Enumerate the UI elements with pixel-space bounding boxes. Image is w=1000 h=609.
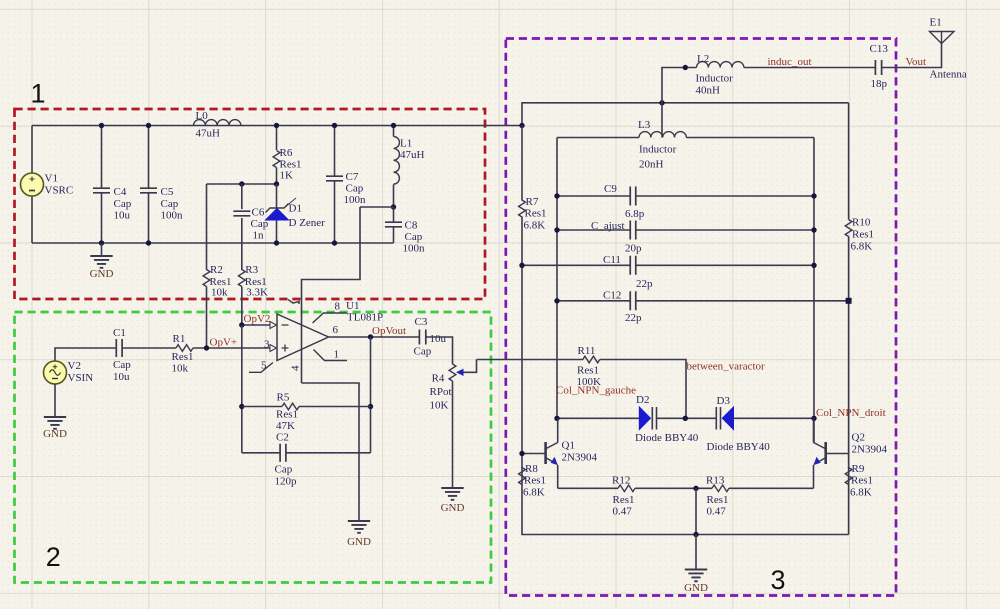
svg-text:R8: R8 (525, 463, 538, 475)
op-amp U1 pin 5 stub (249, 363, 273, 373)
junction R6 top (274, 123, 279, 128)
antenna E1 (930, 32, 955, 44)
junction R5 left (239, 404, 244, 409)
svg-text:R3: R3 (245, 264, 258, 276)
svg-text:2N3904: 2N3904 (562, 452, 598, 464)
svg-text:1n: 1n (253, 230, 265, 242)
junction C7 top (332, 123, 337, 128)
svg-text:R12: R12 (612, 475, 630, 487)
junction L2 left (683, 65, 688, 70)
capacitor C9 6.8p (557, 195, 630, 197)
svg-text:Res1: Res1 (707, 494, 729, 506)
junction C5 top (146, 123, 151, 128)
svg-text:C12: C12 (603, 290, 621, 302)
svg-text:R10: R10 (852, 217, 871, 229)
capacitor C8 (393, 207, 395, 222)
svg-text:Cap: Cap (414, 346, 432, 358)
transistor Q1 2N3904 (544, 442, 547, 464)
svg-text:Res1: Res1 (613, 494, 635, 506)
wire R1 to op-amp pin 3 (193, 347, 270, 349)
svg-text:Cap: Cap (405, 231, 423, 243)
junction between varactors (683, 416, 688, 421)
svg-text:6.8p: 6.8p (625, 208, 645, 220)
ground GND R4 (441, 488, 463, 500)
wire op-amp output to C3 (329, 336, 420, 338)
wire C1 to R1 (123, 347, 177, 349)
wire R4 wiper to R11 (477, 359, 584, 361)
svg-text:L0: L0 (196, 110, 209, 122)
region box 1 (power supply) red dashed border (15, 109, 486, 299)
voltage source V1 VSRC (21, 173, 44, 196)
inductor L1 47uH (393, 126, 395, 137)
resistor R5 47K (242, 406, 282, 408)
svg-text:D Zener: D Zener (289, 217, 326, 229)
op-amp U1 pin 1 stub (314, 350, 348, 361)
resistor R12 0.47 (618, 485, 635, 492)
wire right bus x=848.6 down (848, 103, 850, 220)
ground GND below V2 (54, 384, 56, 417)
inductor L2 40nH (697, 62, 744, 68)
svg-text:4: 4 (290, 365, 302, 371)
wire L2 to C13 (744, 67, 875, 69)
resistor R8 6.8K (519, 468, 526, 485)
svg-text:R9: R9 (852, 463, 865, 475)
wire C3 to R4 (426, 337, 453, 364)
capacitor C11 22p (522, 264, 630, 266)
svg-text:6: 6 (333, 324, 339, 336)
svg-text:18p: 18p (871, 78, 888, 90)
svg-text:C1: C1 (113, 327, 126, 339)
svg-text:0.47: 0.47 (707, 506, 727, 518)
svg-text:GND: GND (684, 582, 708, 594)
svg-text:Cap: Cap (114, 198, 132, 210)
svg-text:6.8K: 6.8K (523, 487, 545, 499)
svg-text:D1: D1 (289, 203, 302, 215)
svg-text:C13: C13 (870, 43, 889, 55)
R4 wiper arrow (461, 360, 477, 373)
capacitor C7 (334, 126, 336, 177)
svg-text:Res1: Res1 (172, 351, 194, 363)
junction node OpV+ (204, 345, 209, 350)
potentiometer R4 RPot 10K (449, 364, 456, 381)
junction C5 bottom (146, 240, 151, 245)
svg-text:Res1: Res1 (276, 409, 298, 421)
svg-text:OpVout: OpVout (372, 325, 406, 337)
svg-text:R2: R2 (210, 264, 223, 276)
svg-text:100n: 100n (161, 210, 184, 222)
svg-text:C2: C2 (276, 432, 289, 444)
svg-text:D2: D2 (636, 394, 649, 406)
svg-text:E1: E1 (930, 17, 942, 29)
svg-text:Col_NPN_droit: Col_NPN_droit (816, 407, 886, 419)
svg-text:C4: C4 (114, 186, 127, 198)
junction varactor row right (811, 416, 816, 421)
capacitor C4 (101, 126, 103, 189)
region box 3 (oscillator) purple dashed border (506, 39, 896, 596)
wire top rail y=125.5 from V1 to section 3 (32, 125, 522, 127)
svg-text:Res1: Res1 (525, 208, 547, 220)
voltage source V2 VSIN (44, 361, 67, 384)
capacitor C2 120p (242, 452, 280, 454)
junction node OpVout (368, 334, 373, 339)
wire OpV2 R3 to op-amp pin 2 (242, 324, 270, 326)
svg-text:8: 8 (335, 301, 341, 313)
svg-text:3: 3 (771, 565, 786, 595)
svg-text:V1: V1 (45, 173, 58, 185)
junction R5 right (368, 404, 373, 409)
svg-text:R4: R4 (432, 373, 445, 385)
wire center tail to ground (695, 488, 697, 534)
junction Q1 base (519, 451, 524, 456)
svg-text:Col_NPN_gauche: Col_NPN_gauche (556, 385, 636, 397)
wire V1 branch x=32 (31, 126, 33, 174)
op-amp U1 pin 8 stub (313, 313, 348, 323)
svg-text:100n: 100n (344, 194, 367, 206)
svg-text:Inductor: Inductor (639, 144, 677, 156)
wire left tank bus x=557 (556, 138, 558, 419)
svg-text:1: 1 (334, 349, 340, 361)
wire feedback left branch x=241.8 (241, 325, 243, 453)
svg-text:L3: L3 (638, 119, 651, 131)
svg-text:10u: 10u (113, 371, 130, 383)
svg-text:100n: 100n (403, 243, 426, 255)
wire V2 to C1 (55, 348, 116, 361)
resistor R10 6.8K (845, 220, 852, 237)
capacitor C6 and resistor R3 branch x=241.8 (241, 184, 243, 209)
svg-text:between_varactor: between_varactor (687, 361, 766, 373)
svg-text:Antenna: Antenna (930, 69, 967, 81)
junction C7 bottom (332, 240, 337, 245)
svg-text:Vout: Vout (906, 56, 927, 68)
svg-text:10k: 10k (211, 287, 228, 299)
svg-text:VSIN: VSIN (68, 372, 94, 384)
svg-text:2N3904: 2N3904 (852, 444, 888, 456)
wire right tank bus x=814 (813, 138, 815, 443)
wire emitter row y=488.3 (558, 487, 618, 489)
svg-text:3.3K: 3.3K (246, 287, 268, 299)
svg-text:GND: GND (43, 428, 67, 440)
wire top rail into section 3 (522, 103, 849, 126)
svg-text:2: 2 (46, 542, 61, 572)
svg-text:Res1: Res1 (851, 475, 873, 487)
junction C4 top (99, 123, 104, 128)
junction L2 tap (659, 100, 664, 105)
junction R6 bottom D1 top (274, 181, 279, 186)
label D1 (284, 198, 296, 208)
svg-text:10u: 10u (114, 210, 131, 222)
capacitor C_ajust 20p (557, 229, 630, 231)
svg-text:Res1: Res1 (852, 229, 874, 241)
wire feedback right branch x=370.5 (370, 337, 372, 453)
resistor R7 6.8K (519, 200, 526, 217)
svg-text:C8: C8 (405, 220, 418, 232)
capacitor C3 10u (419, 330, 425, 345)
wire L3 center tap (661, 103, 663, 138)
svg-text:C11: C11 (603, 254, 621, 266)
svg-text:47uH: 47uH (196, 128, 221, 140)
resistor R2 10k (206, 184, 208, 270)
svg-text:GND: GND (347, 536, 371, 548)
capacitor C5 (148, 126, 150, 189)
svg-text:6.8K: 6.8K (851, 241, 873, 253)
resistor R6 1K (276, 126, 278, 151)
svg-text:0.47: 0.47 (613, 506, 633, 518)
op-amp U1 TL081P (277, 314, 329, 361)
svg-text:Cap: Cap (161, 198, 179, 210)
svg-text:Inductor: Inductor (696, 73, 734, 85)
wire varactor row y=418.3 (557, 417, 639, 419)
svg-text:R1: R1 (173, 333, 186, 345)
resistor R9 6.8K (845, 468, 852, 485)
wire op-amp pin4 to ground (302, 383, 360, 521)
svg-text:Cap: Cap (275, 464, 293, 476)
wire L2 branch up (662, 68, 697, 103)
junction D1 bottom (274, 240, 279, 245)
junction L1 top (391, 123, 396, 128)
stray mark near red border (288, 300, 299, 305)
capacitor C12 22p (557, 300, 630, 302)
resistor R13 0.47 (712, 485, 729, 492)
capacitor C1 (116, 339, 122, 357)
svg-text:20p: 20p (625, 243, 642, 255)
svg-text:5: 5 (261, 360, 267, 372)
svg-text:Diode BBY40: Diode BBY40 (635, 432, 699, 444)
svg-text:R11: R11 (578, 345, 596, 357)
svg-text:10K: 10K (430, 400, 449, 412)
junction C4 bottom (99, 240, 104, 245)
svg-text:10k: 10k (172, 363, 189, 375)
svg-text:Diode BBY40: Diode BBY40 (707, 441, 771, 453)
svg-text:VSRC: VSRC (45, 185, 74, 197)
svg-text:47K: 47K (276, 420, 295, 432)
svg-text:R13: R13 (706, 475, 725, 487)
junction bottom rail (693, 532, 698, 537)
diode D3 BBY40 varactor (722, 407, 733, 430)
svg-text:U1: U1 (346, 300, 359, 312)
svg-text:10u: 10u (430, 333, 447, 345)
svg-text:R5: R5 (277, 392, 290, 404)
svg-text:Q2: Q2 (852, 432, 865, 444)
ground GND section 1 (101, 243, 103, 256)
transistor Q2 2N3904 (824, 442, 827, 464)
svg-text:C_ajust: C_ajust (591, 220, 625, 232)
svg-text:C7: C7 (346, 171, 359, 183)
junction node OpV2 (239, 322, 244, 327)
inductor L0 47uH (194, 120, 241, 126)
svg-text:TL081P: TL081P (347, 312, 383, 324)
diode D2 BBY40 varactor (639, 407, 650, 430)
svg-text:L2: L2 (697, 53, 709, 65)
svg-text:1K: 1K (280, 170, 294, 182)
svg-text:C9: C9 (604, 183, 617, 195)
svg-text:3: 3 (264, 339, 270, 351)
svg-text:22p: 22p (625, 312, 642, 324)
svg-text:Cap: Cap (113, 359, 131, 371)
svg-text:GND: GND (441, 502, 465, 514)
wire bottom rail y=243 (32, 242, 394, 244)
resistor R1 10k (176, 345, 193, 352)
capacitor C13 18p (875, 60, 881, 75)
svg-text:R6: R6 (280, 147, 293, 159)
svg-text:Res1: Res1 (524, 475, 546, 487)
svg-text:OpV+: OpV+ (210, 337, 238, 349)
svg-text:40nH: 40nH (696, 85, 721, 97)
svg-text:C5: C5 (161, 186, 174, 198)
svg-text:Cap: Cap (346, 183, 364, 195)
junction top rail entry (519, 123, 524, 128)
svg-text:6.8K: 6.8K (524, 220, 546, 232)
svg-text:D3: D3 (717, 395, 731, 407)
svg-text:6.8K: 6.8K (850, 487, 872, 499)
svg-text:47uH: 47uH (400, 149, 425, 161)
svg-text:22p: 22p (636, 278, 653, 290)
svg-text:1: 1 (31, 79, 46, 109)
svg-text:Q1: Q1 (562, 440, 575, 452)
svg-text:GND: GND (90, 268, 114, 280)
svg-text:R7: R7 (526, 196, 539, 208)
ground GND section 3 (695, 535, 697, 570)
diode D1 zener (276, 184, 278, 208)
svg-text:induc_out: induc_out (768, 56, 812, 68)
svg-text:20nH: 20nH (639, 159, 664, 171)
inductor L3 20nH (557, 137, 639, 139)
wire left bus x=522 (521, 126, 523, 201)
wire C13 to antenna (882, 43, 942, 68)
svg-text:Res1: Res1 (577, 365, 599, 377)
wire mid rail y=184 R2 to R6 (207, 183, 277, 185)
wire negative rail to op-amp pin 4 (360, 206, 394, 208)
svg-text:120p: 120p (275, 476, 298, 488)
ground GND op-amp (348, 521, 370, 533)
junction varactor row left (554, 416, 559, 421)
svg-text:C3: C3 (415, 316, 428, 328)
junction C6 top (239, 181, 244, 186)
svg-text:OpV2: OpV2 (244, 313, 271, 325)
svg-text:L1: L1 (400, 138, 412, 150)
resistor R11 100K (583, 356, 600, 363)
svg-text:V2: V2 (68, 360, 81, 372)
junction emitter row center (693, 486, 698, 491)
svg-text:RPot: RPot (430, 386, 452, 398)
svg-text:C6: C6 (252, 207, 265, 219)
junction L1 bottom (391, 204, 396, 209)
region box 2 (op-amp stage) green dashed border (15, 312, 492, 583)
